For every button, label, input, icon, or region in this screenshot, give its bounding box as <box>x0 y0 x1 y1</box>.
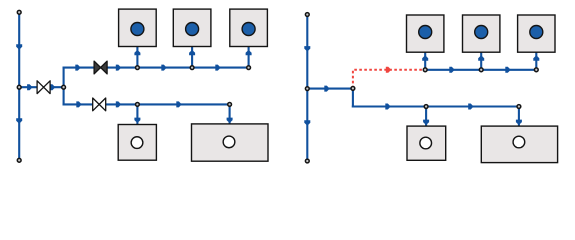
flow arrow up into consumer R2 <box>478 55 484 60</box>
flow arrow right on top supply seg 2 <box>161 65 166 71</box>
consumer port (white) R5 <box>513 136 525 148</box>
flow arrow up into consumer L3 <box>246 50 252 55</box>
flow arrow down on right main (upper) <box>304 46 310 51</box>
consumer port (blue) R3 <box>530 26 543 39</box>
consumer box R4 <box>407 126 446 160</box>
wire: drop to lower consumer L4 <box>136 104 138 136</box>
node: lower line junction (left) <box>136 103 140 107</box>
node: left main junction <box>17 85 21 89</box>
flow arrow right before valve V3 <box>76 101 81 107</box>
node: top line junction 1 (left) <box>136 66 140 70</box>
wire: drop to lower consumer R5 <box>518 107 520 136</box>
flow arrow down into consumer R4 <box>423 120 429 125</box>
consumer box L4 <box>118 125 156 161</box>
wire: right lower supply line <box>352 105 519 107</box>
consumer box R5 <box>481 126 557 163</box>
wire: disabled pipe (red dashed) vertical <box>353 70 425 89</box>
flow arrow right on top supply seg 3 <box>215 65 220 71</box>
wire: drop to top consumer L3 <box>248 35 250 67</box>
node: right top line junction 2 <box>479 68 483 72</box>
wire: right main vertical <box>306 15 308 162</box>
wire: drop to top consumer R1 <box>424 38 426 70</box>
node: top line corner (left) <box>247 66 251 70</box>
wire: branch riser between supply lines <box>63 67 65 106</box>
consumer box R2 <box>463 15 500 52</box>
node: lower line corner (left) <box>228 103 232 107</box>
flow arrow right after valve V3 <box>116 101 121 107</box>
flow arrow right on right lower seg 1 <box>385 104 390 110</box>
flow arrow right after valve V1 <box>50 84 55 90</box>
node: left main top <box>17 10 21 14</box>
flow arrow down into consumer R5 <box>516 120 522 125</box>
consumer port (white) R4 <box>420 137 432 149</box>
node: top line junction 2 (left) <box>190 66 194 70</box>
wire: drop to top consumer L2 <box>191 35 193 67</box>
wire: drop to lower consumer L5 <box>229 104 231 135</box>
wire: right top supply line <box>425 69 536 71</box>
valve V1 (open) on junction branch <box>37 81 50 94</box>
wire: drop to top consumer L1 <box>136 35 138 67</box>
valve V3 (open) on lower supply <box>93 98 106 111</box>
node: right main bottom <box>305 159 309 163</box>
flow arrow right on red dashed pipe <box>386 67 391 73</box>
consumer box L2 <box>173 9 211 46</box>
wire: left top supply line <box>63 67 250 69</box>
consumer port (blue) R1 <box>419 26 432 39</box>
consumer port (blue) R2 <box>475 26 488 39</box>
node: right lower line corner <box>517 105 521 109</box>
flow arrow up into consumer R3 <box>533 55 539 60</box>
flow arrow right before valve V2 <box>75 65 80 71</box>
wire: left junction branch horizontal <box>19 86 63 88</box>
wire: drop to top consumer R3 <box>535 38 537 70</box>
consumer port (blue) L3 <box>242 23 255 36</box>
wire: left main vertical <box>18 12 20 160</box>
flow arrow up into consumer R1 <box>422 55 428 60</box>
flow arrow down into consumer L4 <box>134 118 140 123</box>
flow arrow down on left main (upper) <box>16 44 22 49</box>
wire: drop to top consumer R2 <box>480 38 482 70</box>
flow arrow down on left main (lower) <box>16 118 22 123</box>
consumer port (blue) L1 <box>131 23 144 36</box>
wire: right junction branch horizontal <box>307 88 353 90</box>
consumer box R1 <box>407 15 444 52</box>
consumer port (blue) L2 <box>186 23 199 36</box>
consumer box L5 <box>192 124 269 161</box>
consumer port (white) L4 <box>131 137 143 149</box>
consumer port (white) L5 <box>223 136 235 148</box>
node: right lower line junction <box>424 105 428 109</box>
flow arrow right on right top seg 1 <box>449 67 454 73</box>
flow arrow down into consumer L5 <box>227 118 233 123</box>
flow arrow right on right top seg 2 <box>505 67 510 73</box>
node: right top line corner <box>534 68 538 72</box>
flow arrow right before valve V1 <box>27 84 32 90</box>
node: right top line junction 1 <box>423 68 427 72</box>
wire: right branch drop <box>352 88 354 108</box>
valve V2 (closed/filled) on top supply <box>94 61 107 74</box>
flow arrow right on lower supply seg 2 <box>176 101 181 107</box>
flow arrow up into consumer L1 <box>134 50 140 55</box>
flow arrow down on right main (lower) <box>304 120 310 125</box>
consumer box L3 <box>230 9 268 46</box>
node: left branch tee <box>62 85 66 89</box>
flow arrow right on right junction branch <box>324 86 329 92</box>
consumer box R3 <box>518 15 555 52</box>
node: right main top <box>305 13 309 17</box>
node: left main bottom <box>17 158 21 162</box>
wire: drop to lower consumer R4 <box>425 107 427 137</box>
wire: left lower supply line <box>63 103 230 105</box>
flow arrow right on right lower seg 2 <box>468 104 473 110</box>
node: right branch tee <box>351 87 355 91</box>
consumer box L1 <box>119 9 157 46</box>
node: right main junction <box>305 87 309 91</box>
flow arrow up into consumer L2 <box>189 50 195 55</box>
flow arrow right after valve V2 <box>116 65 121 71</box>
